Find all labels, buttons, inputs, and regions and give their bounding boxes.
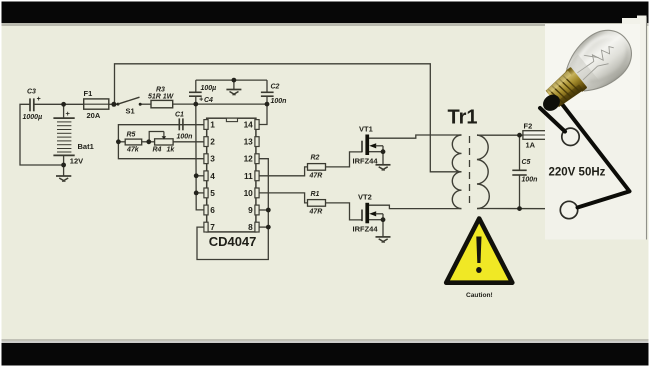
svg-text:C3: C3	[27, 89, 36, 96]
svg-text:VT2: VT2	[358, 193, 372, 202]
wire battery negative return loop	[20, 104, 64, 165]
svg-text:47R: 47R	[309, 209, 323, 216]
wire R1 to VT2 gate	[326, 203, 363, 220]
svg-text:C5: C5	[522, 159, 531, 166]
svg-text:IRFZ44: IRFZ44	[353, 225, 379, 234]
wire R4 to pin 2	[173, 141, 204, 143]
resistor R3 51R 1W	[148, 87, 175, 108]
junction pin 8	[266, 225, 271, 230]
wire lamp lead to bottom terminal	[555, 95, 630, 208]
svg-text:100n: 100n	[271, 98, 287, 105]
wire battery bottom to ground	[63, 155, 65, 175]
ground VT2	[376, 237, 391, 242]
resistor R2 47R	[308, 155, 326, 180]
wire R5 right to R4	[142, 141, 155, 143]
svg-text:+: +	[66, 109, 71, 118]
svg-text:11: 11	[244, 171, 253, 181]
svg-text:51R 1W: 51R 1W	[148, 94, 175, 101]
wire decoupling ground rail	[196, 79, 267, 81]
node output terminal top	[562, 128, 579, 145]
wire switch S1 to R3	[141, 103, 152, 105]
svg-text:4: 4	[210, 171, 215, 181]
transistor VT2 IRFZ44	[353, 193, 384, 234]
svg-text:VT1: VT1	[359, 125, 373, 134]
potentiometer R4 1k	[149, 132, 175, 154]
junction pin4 feed	[194, 173, 199, 178]
junction C2 on 12V rail	[265, 102, 270, 107]
svg-text:3: 3	[210, 154, 215, 164]
svg-text:R1: R1	[311, 191, 320, 198]
transformer Tr1	[448, 107, 490, 209]
wire pins 7 8 9 12 ground loop	[197, 159, 268, 260]
wire VDD feed to pins 4 5 6	[196, 104, 204, 210]
svg-text:12: 12	[244, 154, 254, 164]
svg-text:100µ: 100µ	[201, 85, 217, 92]
caution sign	[446, 219, 512, 300]
svg-text:20A: 20A	[87, 111, 101, 120]
junction pin 9	[266, 208, 271, 213]
wire battery top lead	[63, 104, 65, 118]
ground VT1	[376, 165, 391, 170]
svg-text:1: 1	[210, 120, 215, 130]
svg-text:47k: 47k	[126, 147, 140, 154]
svg-text:+: +	[199, 97, 203, 104]
svg-text:220V 50Hz: 220V 50Hz	[549, 167, 606, 179]
svg-text:1k: 1k	[167, 147, 176, 154]
junction pin5 feed	[194, 191, 199, 196]
op-amp U1 CD4047 IC body	[204, 118, 259, 249]
svg-text:8: 8	[248, 222, 253, 232]
wire F2 to output terminal	[548, 134, 563, 136]
svg-text:Tr1: Tr1	[448, 107, 478, 129]
svg-text:R5: R5	[127, 132, 136, 139]
junction R5 R4 wiper	[146, 139, 151, 144]
junction ground rail	[232, 78, 237, 83]
fuse F1 20A	[84, 89, 109, 120]
svg-text:R2: R2	[311, 155, 320, 162]
svg-text:C1: C1	[175, 112, 184, 119]
svg-text:R4: R4	[153, 147, 162, 154]
wire C4 leads	[195, 80, 197, 92]
svg-text:47R: 47R	[309, 173, 323, 180]
ground battery	[56, 176, 71, 181]
wire C5 leads	[519, 135, 521, 170]
svg-text:13: 13	[244, 137, 254, 147]
svg-text:100n: 100n	[522, 177, 538, 184]
svg-text:12V: 12V	[70, 157, 83, 166]
capacitor C5 100n	[512, 159, 537, 184]
wire 12V rail to Tr1 center tap	[115, 64, 462, 172]
wire Tr1 secondary bottom to output terminal	[477, 208, 560, 210]
lamp bulb	[527, 20, 642, 126]
resistor R1 47R	[308, 191, 326, 216]
svg-text:+: +	[37, 96, 41, 103]
wire VT1 source to ground	[369, 151, 383, 153]
junction fuse-switch-rail	[111, 102, 116, 107]
svg-text:2: 2	[210, 137, 215, 147]
battery Bat1 12V	[53, 118, 74, 155]
svg-text:S1: S1	[126, 107, 135, 116]
junction C5 bottom	[517, 206, 522, 211]
junction battery bottom return	[61, 163, 66, 168]
ground decoupling	[226, 90, 241, 95]
svg-text:9: 9	[248, 205, 253, 215]
junction C4 on 12V rail	[193, 102, 198, 107]
lamp photo white background	[545, 24, 647, 240]
svg-text:CD4047: CD4047	[209, 234, 257, 249]
svg-text:F2: F2	[524, 122, 533, 131]
svg-text:7: 7	[210, 222, 215, 232]
resistor R5 47k	[125, 132, 142, 154]
wire lamp lead to top terminal	[540, 108, 565, 132]
wire Tr1 secondary top to F2	[477, 134, 523, 136]
wire VT2 source to ground	[369, 219, 383, 221]
wire VT2 drain to Tr1 primary bottom	[369, 205, 462, 208]
svg-text:IRFZ44: IRFZ44	[353, 156, 379, 165]
svg-text:Caution!: Caution!	[466, 292, 493, 299]
wire ground stub	[233, 80, 235, 89]
wire pin 10 to R1	[259, 193, 307, 203]
svg-text:R3: R3	[156, 87, 165, 94]
svg-text:1A: 1A	[526, 141, 536, 150]
wire pin 11 to R2	[259, 167, 307, 176]
svg-text:100n: 100n	[177, 134, 193, 141]
junction R5 left net	[116, 139, 121, 144]
fuse F2 1A	[523, 122, 548, 150]
switch S1	[117, 97, 142, 115]
svg-text:C2: C2	[271, 84, 280, 91]
junction C5 top	[517, 133, 522, 138]
node output terminal bottom	[560, 201, 577, 218]
wire R2 to VT1 gate	[326, 152, 363, 167]
svg-text:Bat1: Bat1	[78, 142, 94, 151]
svg-text:1000µ: 1000µ	[23, 114, 43, 121]
svg-text:F1: F1	[84, 89, 93, 98]
svg-text:C4: C4	[204, 97, 213, 104]
capacitor C4 100u	[189, 85, 216, 104]
svg-text:14: 14	[244, 120, 254, 130]
wire C3 to fuse F1 (+12V node)	[34, 103, 84, 105]
junction VT1 source	[381, 149, 386, 154]
wire C2 node to pin 14	[259, 104, 267, 124]
wire R3 to IC VDD rail	[173, 103, 267, 105]
svg-text:5: 5	[210, 188, 215, 198]
wire R5 left to net	[118, 141, 125, 143]
capacitor C1 100n	[175, 112, 192, 141]
wire fuse to switch junction	[109, 103, 117, 105]
svg-text:6: 6	[210, 205, 215, 215]
svg-text:10: 10	[244, 188, 254, 198]
transistor VT1 IRFZ44	[353, 125, 384, 166]
capacitor C3 1000u	[23, 89, 43, 122]
wire pin1 C1 R5 pin3 net	[118, 125, 204, 159]
junction battery top	[61, 102, 66, 107]
junction VT2 source	[381, 217, 386, 222]
wire C2 leads	[266, 80, 268, 92]
wire VT1 drain to Tr1 primary top	[369, 135, 462, 138]
capacitor C2 100n	[261, 84, 287, 106]
